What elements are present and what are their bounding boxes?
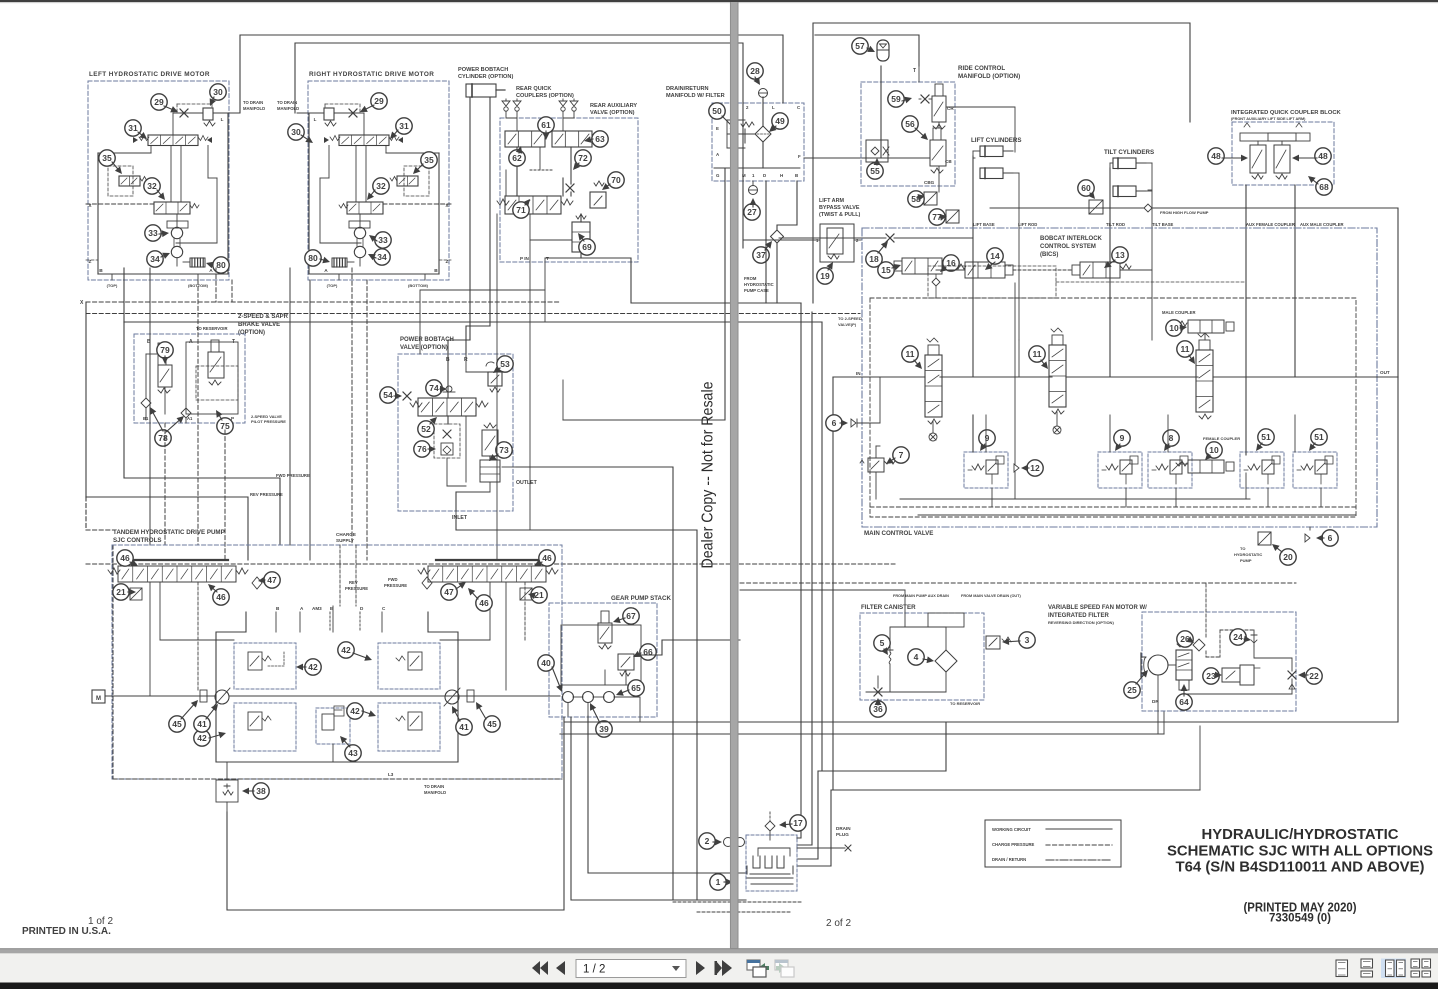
svg-text:72: 72 xyxy=(578,153,588,163)
svg-text:VALVE (OPTION): VALVE (OPTION) xyxy=(400,345,448,351)
balloon 35 xyxy=(99,150,115,166)
wire motor internal bus xyxy=(320,242,361,244)
svg-text:TO 2-SPEED: TO 2-SPEED xyxy=(838,316,862,321)
svg-text:PLUG: PLUG xyxy=(836,832,849,837)
balloon 33 xyxy=(375,232,391,248)
svg-text:29: 29 xyxy=(374,96,384,106)
wire dashed 564 xyxy=(86,563,895,565)
wire 27 gauge xyxy=(752,181,754,185)
wire spool to shift valve xyxy=(170,146,172,203)
balloon 63 xyxy=(592,131,608,147)
svg-text:MAIN CONTROL VALVE: MAIN CONTROL VALVE xyxy=(864,530,933,537)
wire drain plug loop 1 xyxy=(797,722,946,859)
svg-text:G: G xyxy=(716,173,720,178)
balloon 53 xyxy=(497,356,513,372)
balloon 43 xyxy=(345,745,361,761)
balloon 25 xyxy=(1124,682,1140,698)
wires filter canister xyxy=(890,590,905,648)
balloon 29 xyxy=(151,94,167,110)
balloon 59 xyxy=(888,91,904,107)
svg-text:25: 25 xyxy=(1127,685,1137,695)
svg-text:BOBCAT INTERLOCK: BOBCAT INTERLOCK xyxy=(1040,236,1103,242)
svg-text:48: 48 xyxy=(1318,151,1328,161)
svg-text:PUMP CASE: PUMP CASE xyxy=(744,288,769,293)
svg-text:74: 74 xyxy=(429,383,439,393)
toolbar first-page button xyxy=(532,961,540,975)
ride control relief (59) xyxy=(921,95,929,103)
wire gearline right xyxy=(641,640,740,655)
svg-text:A: A xyxy=(209,268,213,274)
solenoid (45) right xyxy=(467,690,474,702)
gear pump circles (40,65) xyxy=(563,692,574,703)
svg-text:(BICS): (BICS) xyxy=(1040,252,1058,258)
wire spool to shift valve xyxy=(365,146,367,203)
balloon 46 xyxy=(476,595,492,611)
balloon 62 xyxy=(509,150,525,166)
motor port plate xyxy=(349,221,370,228)
svg-text:LIFT ARM: LIFT ARM xyxy=(819,198,844,204)
svg-text:A: A xyxy=(189,339,193,345)
balloon 4 xyxy=(908,649,924,665)
svg-text:35: 35 xyxy=(424,155,434,165)
balloon 32 xyxy=(373,178,389,194)
relief cartridge box at 1148 xyxy=(1148,452,1192,488)
solenoid box left (21) xyxy=(130,588,142,600)
balloon 9 xyxy=(1114,430,1130,446)
drive spool valve (31) xyxy=(339,135,389,146)
svg-text:5: 5 xyxy=(880,638,885,648)
balloon 41 xyxy=(194,716,210,732)
balloon 48 xyxy=(1208,148,1224,164)
svg-text:33: 33 xyxy=(378,235,388,245)
servo box BL xyxy=(234,703,296,751)
relief (53) xyxy=(488,372,502,386)
toolbar prev-view icon xyxy=(747,960,760,970)
M drive box xyxy=(92,690,105,703)
solenoid (58) xyxy=(924,192,937,205)
balloon 42 xyxy=(338,642,354,658)
balloon 56 xyxy=(902,116,918,132)
balloon 18 xyxy=(866,251,882,267)
svg-text:51: 51 xyxy=(1314,432,1324,442)
wire quick coupler down xyxy=(1245,185,1247,455)
balloon 12 xyxy=(1027,460,1043,476)
wire IN/OUT trunk xyxy=(833,376,925,378)
balloon 64 xyxy=(1176,694,1192,710)
svg-text:PILOT PRESSURE: PILOT PRESSURE xyxy=(251,419,286,424)
balloon 27 xyxy=(744,204,760,220)
svg-text:LIFT ROD: LIFT ROD xyxy=(1018,222,1037,227)
wire charge line xyxy=(332,606,334,632)
svg-text:46: 46 xyxy=(542,553,552,563)
balloon 1 xyxy=(710,874,726,890)
svg-text:T64 (S/N B4SD110011 AND ABOVE): T64 (S/N B4SD110011 AND ABOVE) xyxy=(1176,860,1425,876)
svg-text:OUT: OUT xyxy=(1380,370,1390,375)
balloon 54 xyxy=(380,387,396,403)
relief valve (30) xyxy=(203,108,213,120)
svg-text:FILTER CANISTER: FILTER CANISTER xyxy=(861,604,916,611)
wire from high flow pump xyxy=(1144,204,1152,212)
svg-text:56: 56 xyxy=(905,119,915,129)
relief (50 area) xyxy=(741,122,754,127)
lift cylinder 1 xyxy=(980,146,1003,157)
svg-text:40: 40 xyxy=(541,658,551,668)
svg-text:TILT CYLINDERS: TILT CYLINDERS xyxy=(1104,149,1154,156)
cylinder symbol xyxy=(466,84,496,97)
motor rotary group (34) xyxy=(354,246,365,257)
solenoid box right (21) xyxy=(520,588,532,600)
relief (67) xyxy=(598,623,612,643)
svg-text:HYDRAULIC/HYDROSTATIC: HYDRAULIC/HYDROSTATIC xyxy=(1202,827,1400,843)
balloon arrows motors xyxy=(164,106,172,109)
X symbol (72) xyxy=(566,184,574,192)
closed port X (29) xyxy=(180,109,188,117)
brake release valve (75) xyxy=(208,352,224,378)
svg-text:46: 46 xyxy=(120,553,130,563)
svg-text:FROM: FROM xyxy=(744,276,757,281)
svg-text:CYLINDER (OPTION): CYLINDER (OPTION) xyxy=(458,74,513,80)
tilt cylinder 1 xyxy=(1113,158,1136,169)
svg-text:TANDEM HYDROSTATIC DRIVE PUMP: TANDEM HYDROSTATIC DRIVE PUMP xyxy=(113,529,225,536)
relief valve (70) xyxy=(590,192,606,208)
wire manifold B down xyxy=(777,181,797,230)
pump rotary left (41) xyxy=(215,690,229,704)
motor rotary group (33) xyxy=(354,227,365,238)
wire motor internal bus xyxy=(176,242,217,244)
svg-text:CHARGE PRESSURE: CHARGE PRESSURE xyxy=(992,842,1035,847)
svg-text:42: 42 xyxy=(308,662,318,672)
svg-text:FEMALE COUPLER: FEMALE COUPLER xyxy=(1203,436,1240,441)
motor rotary group (33) xyxy=(171,227,182,238)
shift valve (32) xyxy=(347,202,383,214)
wire out right edge down xyxy=(565,377,1398,722)
svg-text:30: 30 xyxy=(213,87,223,97)
fan valve stack (64) xyxy=(1176,650,1192,680)
svg-text:DR: DR xyxy=(1152,699,1159,704)
motor frame xyxy=(97,153,99,274)
wire bypass valve xyxy=(743,239,820,241)
X port (54) xyxy=(403,392,411,400)
balloon 30 xyxy=(210,84,226,100)
shift valve (32) xyxy=(154,202,190,214)
wire bottom loop left xyxy=(227,717,564,910)
solenoid (3) xyxy=(986,636,1000,649)
closed port X (29) xyxy=(349,109,357,117)
balloon 68 xyxy=(1316,179,1332,195)
svg-text:PRESSURE: PRESSURE xyxy=(345,586,368,591)
svg-text:WORKING CIRCUIT: WORKING CIRCUIT xyxy=(992,827,1031,832)
svg-text:15: 15 xyxy=(881,265,891,275)
svg-text:62: 62 xyxy=(512,153,522,163)
svg-text:TO DRAIN: TO DRAIN xyxy=(243,100,263,105)
svg-text:2-SPEED & SAPR: 2-SPEED & SAPR xyxy=(238,314,289,320)
svg-text:27: 27 xyxy=(747,207,757,217)
svg-text:INLET: INLET xyxy=(452,515,468,521)
svg-text:51: 51 xyxy=(1261,432,1271,442)
balloon 10 xyxy=(1166,320,1182,336)
svg-text:TILT BASE: TILT BASE xyxy=(1152,222,1174,227)
balloon 73 xyxy=(496,442,512,458)
brake spring pack (80) xyxy=(332,258,347,267)
svg-text:REAR QUICK: REAR QUICK xyxy=(516,86,551,92)
BICS valve right (13) xyxy=(1080,262,1120,278)
balloon 57 xyxy=(852,38,868,54)
wire pump internals xyxy=(149,582,151,696)
balloon 21 xyxy=(531,587,547,603)
svg-text:F: F xyxy=(798,154,801,159)
svg-text:13: 13 xyxy=(1115,250,1125,260)
servo box BR xyxy=(378,703,440,751)
svg-text:LIFT CYLINDERS: LIFT CYLINDERS xyxy=(971,137,1022,144)
svg-text:12: 12 xyxy=(1030,463,1040,473)
balloon 79 xyxy=(157,342,173,358)
motor port plate xyxy=(167,221,188,228)
spool drain X 2 xyxy=(1053,426,1061,434)
wire dashed X line bottom xyxy=(112,545,114,779)
balloon 15 xyxy=(878,262,894,278)
wire rear aux down xyxy=(562,178,564,196)
filter diamond (26) xyxy=(1193,639,1205,651)
toolbar xyxy=(0,953,1438,983)
svg-text:11: 11 xyxy=(906,349,915,359)
balloon 6 xyxy=(1322,530,1338,546)
svg-text:41: 41 xyxy=(459,722,469,732)
ride control lower valve (55/56) xyxy=(930,140,946,166)
wire tilt cylinders xyxy=(1109,168,1111,377)
balloon 49 xyxy=(772,113,788,129)
balloon 28 xyxy=(747,63,763,79)
svg-text:INTEGRATED FILTER: INTEGRATED FILTER xyxy=(1048,613,1109,619)
balloon 30 xyxy=(288,124,304,140)
svg-text:HYDROSTATIC: HYDROSTATIC xyxy=(1234,552,1262,557)
relief cartridge box at 964 xyxy=(964,452,1008,488)
svg-text:FROM MAIN PUMP AUX DRAIN: FROM MAIN PUMP AUX DRAIN xyxy=(893,594,949,598)
balloon 11 xyxy=(1177,341,1193,357)
X port (18) xyxy=(886,234,894,242)
svg-text:L: L xyxy=(314,117,317,122)
wires rear aux xyxy=(516,147,518,196)
wire drain plug loop 2 xyxy=(797,790,1200,866)
svg-text:80: 80 xyxy=(216,260,226,270)
svg-text:TO DRAIN: TO DRAIN xyxy=(277,100,297,105)
motor frame xyxy=(438,153,440,274)
toolbar two-page icon xyxy=(1386,960,1395,977)
balloon 21 xyxy=(113,584,129,600)
X drain (36) xyxy=(874,688,882,696)
wire X to spool xyxy=(172,113,174,135)
pilot check (74) xyxy=(446,386,452,392)
svg-text:CBG: CBG xyxy=(924,180,935,185)
svg-text:61: 61 xyxy=(541,120,551,130)
balloon 14 xyxy=(987,248,1003,264)
legend box xyxy=(985,820,1121,867)
balloon 9 xyxy=(979,430,995,446)
svg-text:42: 42 xyxy=(350,706,360,716)
svg-text:MANIFOLD W/ FILTER: MANIFOLD W/ FILTER xyxy=(666,93,725,99)
wire gear pump xyxy=(561,625,641,685)
svg-text:65: 65 xyxy=(631,683,641,693)
coupler cartridge 2 xyxy=(1268,133,1310,141)
solenoid (20) xyxy=(1258,532,1271,545)
svg-text:FWD PRESSURE: FWD PRESSURE xyxy=(276,473,310,478)
svg-text:34: 34 xyxy=(377,252,387,262)
balloon 31 xyxy=(396,118,412,134)
wire top drain bus 2 xyxy=(295,43,743,248)
svg-text:LIFT BASE: LIFT BASE xyxy=(973,222,995,227)
svg-text:BYPASS VALVE: BYPASS VALVE xyxy=(819,205,860,211)
wire trunk 322 xyxy=(124,321,822,323)
bypass spring (5) xyxy=(887,648,893,664)
balloon 47 xyxy=(264,572,280,588)
relief cartridge box at 1098 xyxy=(1098,452,1142,488)
MCV spool at 1196 xyxy=(1196,350,1213,412)
tilt cylinder 2 xyxy=(1113,186,1136,197)
svg-text:FROM HIGH FLOW PUMP: FROM HIGH FLOW PUMP xyxy=(1160,210,1209,215)
svg-text:43: 43 xyxy=(348,748,358,758)
wires bobtach valve xyxy=(447,354,449,398)
svg-text:(BOTTOM): (BOTTOM) xyxy=(408,283,429,288)
relief (24) xyxy=(1251,632,1257,646)
svg-text:(TOP): (TOP) xyxy=(107,283,118,288)
check diamond (16) xyxy=(932,278,940,286)
wire B/A down xyxy=(424,274,426,280)
relief (66) xyxy=(618,654,634,670)
svg-text:52: 52 xyxy=(421,424,431,434)
svg-text:Z: Z xyxy=(89,259,92,265)
svg-text:68: 68 xyxy=(1319,182,1329,192)
svg-text:MALE COUPLER: MALE COUPLER xyxy=(1162,310,1196,315)
svg-text:(TWIST & PULL): (TWIST & PULL) xyxy=(819,212,861,218)
balloon 41 xyxy=(456,719,472,735)
wire bobtach outlet loop xyxy=(516,467,673,900)
svg-text:75: 75 xyxy=(220,421,230,431)
svg-text:53: 53 xyxy=(500,359,510,369)
svg-text:32: 32 xyxy=(147,181,157,191)
wire fwd/rev pressure xyxy=(124,322,280,545)
solenoid (60) xyxy=(1089,200,1103,214)
svg-text:REAR AUXILIARY: REAR AUXILIARY xyxy=(590,103,637,109)
svg-text:23: 23 xyxy=(1206,671,1216,681)
svg-text:MANIFOLD: MANIFOLD xyxy=(243,106,265,111)
pump rotary right (41) xyxy=(445,690,459,704)
svg-text:DRAIN/RETURN: DRAIN/RETURN xyxy=(666,86,709,92)
wire MCV bottom bus xyxy=(900,498,1250,500)
servo box TR xyxy=(378,643,440,689)
svg-text:2: 2 xyxy=(705,836,710,846)
balloon 42 xyxy=(305,659,321,675)
filter diamond (49) xyxy=(755,126,771,142)
wire fan DR return xyxy=(560,733,1164,735)
svg-text:11: 11 xyxy=(1181,344,1190,354)
top window edge xyxy=(0,0,1438,2)
wire spool3 to coupler xyxy=(1204,333,1206,340)
balloon 38 xyxy=(253,783,269,799)
balloon 75 xyxy=(217,418,233,434)
relief (7) xyxy=(868,458,884,472)
svg-text:49: 49 xyxy=(775,116,785,126)
svg-text:34: 34 xyxy=(150,254,160,264)
svg-text:42: 42 xyxy=(197,733,207,743)
pump body outline xyxy=(216,612,458,762)
svg-text:46: 46 xyxy=(479,598,489,608)
svg-text:9: 9 xyxy=(1120,433,1125,443)
toolbar next-page button xyxy=(696,961,705,975)
svg-text:45: 45 xyxy=(172,719,182,729)
balloon 31 xyxy=(125,120,141,136)
MCV spool at 1049 xyxy=(1049,345,1066,407)
center control (43) xyxy=(316,708,350,744)
toolbar last-page button xyxy=(716,961,722,975)
svg-text:POWER BOBTACH: POWER BOBTACH xyxy=(400,337,454,343)
svg-text:8: 8 xyxy=(1169,433,1174,443)
balloon 65 xyxy=(628,680,644,696)
svg-text:VARIABLE SPEED FAN MOTOR W/: VARIABLE SPEED FAN MOTOR W/ xyxy=(1048,605,1147,611)
svg-text:39: 39 xyxy=(599,724,609,734)
balloon 46 xyxy=(539,550,555,566)
balloon 52 xyxy=(418,421,434,437)
solenoid (77) xyxy=(946,210,959,223)
balloon 2 xyxy=(699,833,715,849)
gauges (2) xyxy=(724,838,733,847)
wire manifold D down xyxy=(765,181,767,303)
svg-text:A: A xyxy=(324,268,328,274)
filter diamond (4) xyxy=(935,650,957,672)
balloon 47 xyxy=(441,584,457,600)
check valves (78) xyxy=(141,398,151,408)
balloon 48 xyxy=(1315,148,1331,164)
balloon 39 xyxy=(596,721,612,737)
wire trunk down corners xyxy=(797,303,801,838)
page divider bar xyxy=(730,2,739,949)
svg-text:RIDE CONTROL: RIDE CONTROL xyxy=(958,65,1005,72)
relief cartridge box at 1240 xyxy=(1240,452,1284,488)
wire brake valve down xyxy=(164,423,166,545)
balloon 78 xyxy=(155,430,171,446)
bottom gray band xyxy=(0,949,1438,954)
motor rotary group (34) xyxy=(171,246,182,257)
reversing valve (23) xyxy=(1222,668,1240,682)
balloon 45 xyxy=(169,716,185,732)
svg-text:DRAIN / RETURN: DRAIN / RETURN xyxy=(992,857,1026,862)
balloon 11 xyxy=(1029,346,1045,362)
svg-text:64: 64 xyxy=(1179,697,1189,707)
svg-text:54: 54 xyxy=(383,390,393,400)
svg-text:78: 78 xyxy=(158,433,168,443)
svg-text:INTEGRATED QUICK COUPLER BLOCK: INTEGRATED QUICK COUPLER BLOCK xyxy=(1231,110,1342,116)
balloon 74 xyxy=(426,380,442,396)
low pressure relief (38) xyxy=(216,780,238,802)
filter (47) right xyxy=(422,577,432,589)
svg-text:P IN: P IN xyxy=(520,256,530,261)
balloon 8 xyxy=(1163,430,1179,446)
balloon 35 xyxy=(421,152,437,168)
svg-text:TO: TO xyxy=(1240,546,1245,551)
wire manifold F to ride control CB xyxy=(804,157,881,159)
gauge (28) xyxy=(759,89,768,98)
wire trunk solid 303 xyxy=(86,313,860,315)
balloon 58 xyxy=(908,191,924,207)
pressure valve (69) xyxy=(572,222,590,252)
svg-text:Dealer Copy -- Not for Resale: Dealer Copy -- Not for Resale xyxy=(700,381,717,568)
wire top right frame xyxy=(813,23,1190,303)
accumulator (57) xyxy=(877,40,889,61)
svg-text:REV: REV xyxy=(349,580,358,585)
balloon 51 xyxy=(1258,429,1274,445)
svg-text:PRESSURE: PRESSURE xyxy=(384,583,407,588)
svg-text:L3: L3 xyxy=(388,772,394,777)
balloon 80 xyxy=(213,257,229,273)
svg-text:RIGHT HYDROSTATIC DRIVE MOTOR: RIGHT HYDROSTATIC DRIVE MOTOR xyxy=(309,71,434,78)
